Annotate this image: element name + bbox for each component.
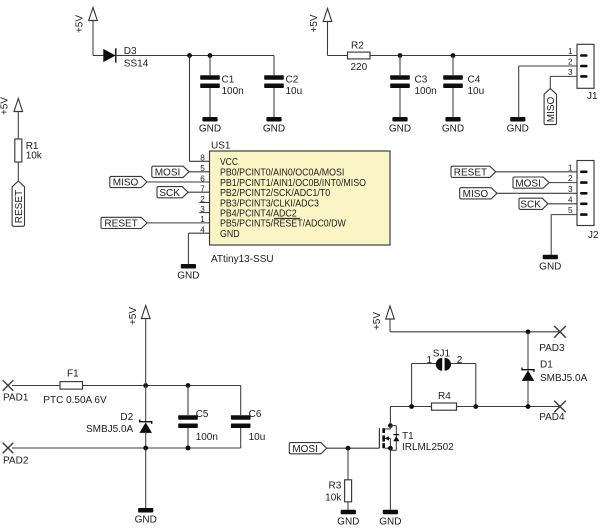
svg-text:US1: US1 (211, 141, 231, 152)
svg-text:GND: GND (539, 261, 561, 272)
svg-text:100n: 100n (222, 86, 244, 97)
svg-text:+5V: +5V (372, 312, 383, 330)
svg-text:C1: C1 (222, 75, 235, 86)
svg-text:GND: GND (135, 515, 157, 526)
svg-text:4: 4 (568, 195, 573, 204)
svg-text:VCC: VCC (220, 157, 238, 168)
svg-text:+5V: +5V (74, 15, 85, 33)
svg-text:GND: GND (263, 124, 285, 135)
svg-text:2: 2 (568, 58, 573, 67)
svg-text:IRLML2502: IRLML2502 (402, 442, 454, 453)
svg-text:GND: GND (389, 124, 411, 135)
svg-text:GND: GND (177, 271, 199, 282)
svg-text:MISO: MISO (113, 178, 139, 189)
svg-text:F1: F1 (67, 369, 79, 380)
svg-text:SS14: SS14 (124, 59, 149, 70)
svg-text:D3: D3 (124, 46, 137, 57)
svg-text:GND: GND (337, 516, 359, 527)
svg-text:C4: C4 (468, 75, 481, 86)
svg-text:SCK: SCK (520, 200, 541, 211)
svg-text:10k: 10k (325, 492, 342, 503)
svg-text:SMBJ5.0A: SMBJ5.0A (86, 424, 134, 435)
svg-text:PAD4: PAD4 (539, 412, 565, 423)
svg-text:PTC 0.50A 6V: PTC 0.50A 6V (43, 395, 107, 406)
svg-text:8: 8 (200, 154, 205, 163)
svg-text:C2: C2 (286, 75, 299, 86)
svg-text:+5V: +5V (128, 307, 139, 325)
svg-text:3: 3 (568, 185, 573, 194)
svg-text:1: 1 (568, 47, 573, 56)
svg-text:PAD1: PAD1 (3, 393, 29, 404)
svg-text:MISO: MISO (546, 96, 557, 122)
svg-text:D1: D1 (540, 360, 553, 371)
svg-text:RESET: RESET (104, 219, 137, 230)
svg-text:10u: 10u (468, 86, 485, 97)
svg-text:RESET: RESET (454, 168, 487, 179)
svg-text:MOSI: MOSI (155, 168, 181, 179)
svg-text:SMBJ5.0A: SMBJ5.0A (540, 373, 588, 384)
svg-text:5: 5 (568, 206, 573, 215)
svg-text:2: 2 (568, 174, 573, 183)
svg-text:RESET: RESET (14, 190, 25, 223)
svg-text:+5V: +5V (0, 97, 11, 115)
svg-text:10u: 10u (286, 86, 303, 97)
svg-text:GND: GND (379, 516, 401, 527)
svg-text:SCK: SCK (159, 188, 180, 199)
svg-text:D2: D2 (120, 412, 133, 423)
svg-text:10k: 10k (26, 151, 43, 162)
svg-text:R4: R4 (438, 391, 451, 402)
svg-text:GND: GND (507, 124, 529, 135)
svg-text:R2: R2 (351, 41, 364, 52)
svg-text:SJ1: SJ1 (433, 349, 451, 360)
svg-text:MISO: MISO (463, 189, 489, 200)
svg-text:MOSI: MOSI (292, 444, 318, 455)
svg-text:1: 1 (426, 355, 432, 366)
svg-text:100n: 100n (415, 86, 437, 97)
svg-text:C3: C3 (415, 75, 428, 86)
svg-text:GND: GND (442, 124, 464, 135)
svg-text:GND: GND (220, 229, 240, 240)
svg-text:220: 220 (351, 62, 368, 73)
svg-text:10u: 10u (249, 432, 266, 443)
svg-text:J1: J1 (587, 91, 598, 102)
svg-text:PAD3: PAD3 (539, 343, 565, 354)
svg-text:R3: R3 (329, 480, 342, 491)
svg-text:C5: C5 (196, 409, 209, 420)
svg-text:1: 1 (568, 163, 573, 172)
svg-text:3: 3 (568, 68, 573, 77)
svg-text:2: 2 (457, 355, 463, 366)
svg-text:J2: J2 (588, 230, 599, 241)
svg-text:100n: 100n (196, 432, 218, 443)
svg-text:PAD2: PAD2 (3, 455, 29, 466)
svg-text:C6: C6 (249, 409, 262, 420)
svg-text:+5V: +5V (309, 14, 320, 32)
svg-text:MOSI: MOSI (515, 178, 541, 189)
svg-text:GND: GND (199, 124, 221, 135)
svg-text:T1: T1 (402, 431, 414, 442)
svg-text:ATtiny13-SSU: ATtiny13-SSU (211, 254, 274, 265)
